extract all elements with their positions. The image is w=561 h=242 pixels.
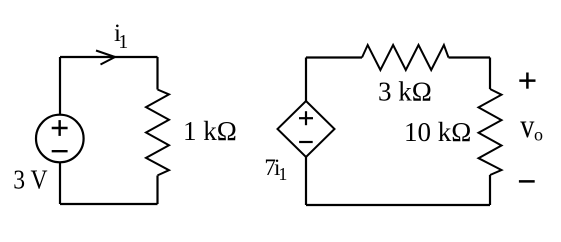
svg-text:3 V: 3 V <box>13 165 48 195</box>
output minus sign <box>519 180 535 183</box>
wire bottom-left circuit <box>60 203 158 205</box>
wire right branch upper lead (to 10k) <box>489 58 491 90</box>
label 3 V <box>13 165 48 195</box>
wire left branch lower (from dependent source) <box>305 157 307 205</box>
current arrow i1 <box>96 51 115 65</box>
dependent source plus sign <box>299 111 313 125</box>
voltage source minus sign <box>52 150 68 152</box>
resistor R1 1 kOhm <box>146 90 169 176</box>
wire top right circuit (left segment to 3k) <box>306 56 362 58</box>
voltage source plus sign <box>52 120 68 136</box>
wire top right circuit (right segment from 3k) <box>449 56 491 58</box>
resistor 3 kOhm <box>362 45 449 70</box>
svg-text:3 kΩ: 3 kΩ <box>378 77 432 107</box>
wire left side lower (source bottom lead) <box>59 162 61 204</box>
svg-text:1: 1 <box>278 164 287 184</box>
dependent source minus sign <box>299 141 313 143</box>
svg-text:o: o <box>534 124 543 144</box>
svg-text:1 kΩ: 1 kΩ <box>183 116 237 146</box>
wire left branch upper (to dependent source) <box>305 58 307 102</box>
label 7i1 <box>264 155 287 184</box>
wire right branch lower lead (from 10k) <box>489 175 491 205</box>
label i1 <box>114 20 128 53</box>
resistor 10 kOhm <box>479 89 502 175</box>
dependent source diamond 7i1 <box>278 101 335 157</box>
svg-text:10 kΩ: 10 kΩ <box>404 117 471 147</box>
output plus sign <box>519 73 535 89</box>
wire left side upper (source top lead) <box>59 57 61 115</box>
wire bottom right circuit <box>306 204 490 206</box>
svg-text:1: 1 <box>118 31 128 53</box>
label vo <box>520 107 543 145</box>
wire top-left circuit (top side) <box>60 56 158 58</box>
wire right branch upper lead (to R1) <box>156 57 158 90</box>
svg-text:v: v <box>520 107 535 145</box>
voltage source V1 circle <box>36 115 84 163</box>
wire right branch lower lead (from R1) <box>156 176 158 205</box>
